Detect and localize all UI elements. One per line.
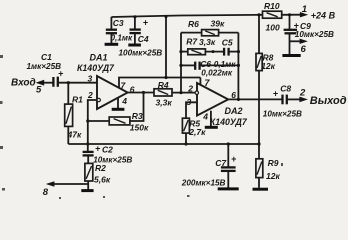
svg-text:3,3к: 3,3к: [156, 97, 173, 107]
wire supply drop to pin7 bus: [165, 17, 167, 78]
wire C3 bottom lead: [110, 33, 112, 43]
svg-text:С4: С4: [138, 34, 149, 44]
resistor R6: [202, 30, 219, 36]
wire C3 top lead: [110, 17, 112, 30]
wire R1 top lead: [67, 83, 69, 104]
svg-text:С5: С5: [222, 37, 233, 47]
svg-text:6: 6: [231, 90, 236, 100]
junction R8 on rail: [257, 13, 260, 16]
resistor R2: [85, 163, 93, 181]
junction R7 C5: [212, 50, 215, 53]
svg-text:10мк×25В: 10мк×25В: [295, 30, 334, 39]
svg-text:+24 В: +24 В: [311, 11, 336, 21]
svg-text:R7: R7: [186, 37, 198, 47]
capacitor C5: [223, 48, 225, 56]
svg-text:100: 100: [266, 22, 280, 32]
wire R8 top lead: [258, 15, 260, 54]
wire C7 bottom lead: [227, 171, 229, 187]
svg-text:R9: R9: [268, 158, 279, 168]
ground DA2 pin4: [205, 126, 218, 129]
svg-text:1мк×25В: 1мк×25В: [27, 62, 62, 71]
wire feedback network left rail: [180, 33, 182, 93]
terminal 8 arrow: [52, 183, 88, 185]
svg-text:2,7к: 2,7к: [188, 127, 206, 137]
wire C7 top lead: [227, 144, 229, 167]
wire DA1 pin4 lead: [117, 98, 119, 108]
inverting input bubble DA2 pin2: [195, 91, 198, 94]
svg-text:39к: 39к: [211, 18, 225, 28]
svg-text:150к: 150к: [130, 123, 149, 133]
svg-text:С3: С3: [113, 18, 124, 28]
wire C6 left lead: [181, 64, 195, 66]
wire pin7 power bus DA1 to DA2: [119, 78, 200, 88]
svg-text:0,1мк: 0,1мк: [111, 34, 133, 43]
svg-text:С7: С7: [215, 158, 227, 168]
svg-text:С8: С8: [280, 84, 291, 94]
terminal 6 arrow: [290, 40, 302, 42]
wire +24V supply rail: [111, 15, 262, 17]
svg-text:+: +: [143, 17, 149, 27]
svg-text:Вход: Вход: [11, 77, 36, 88]
wire R2 bottom lead: [87, 181, 89, 190]
wire R1 bottom to mid rail: [67, 126, 69, 144]
svg-text:2: 2: [87, 90, 93, 100]
svg-text:DA2: DA2: [225, 106, 243, 116]
wire DA2 pin7 drop: [199, 78, 201, 85]
svg-text:12к: 12к: [266, 171, 280, 181]
wire C9 bottom lead: [289, 34, 291, 55]
resistor R7: [188, 49, 206, 55]
junction C5 branch on right rail: [237, 50, 240, 53]
wire C1 to DA1 pin3: [59, 82, 97, 84]
op-amp DA1: [97, 76, 128, 109]
resistor R5: [182, 118, 189, 133]
wire C4 bottom lead: [134, 33, 136, 44]
wire R3 to DA1 output: [130, 93, 144, 122]
inverting input bubble DA1 pin2: [97, 98, 100, 101]
svg-text:6: 6: [301, 44, 307, 55]
resistor R9: [256, 159, 263, 178]
ground under C7: [218, 187, 239, 190]
svg-text:R10: R10: [264, 1, 280, 11]
svg-text:4: 4: [121, 96, 127, 106]
wire DA1 pin2 down to C2: [88, 100, 97, 152]
wire DA2 pin3 to R5: [186, 102, 197, 118]
capacitor C6: [194, 62, 196, 70]
ground under C3: [105, 43, 119, 46]
terminal 5 input arrow: [42, 82, 53, 84]
junction C6 branch on right rail: [237, 64, 240, 67]
wire C4 top lead: [134, 17, 136, 30]
capacitor C9: [284, 29, 297, 31]
svg-text:К140УД7: К140УД7: [210, 117, 248, 127]
junction supply drop on rail: [165, 15, 168, 18]
svg-text:12к: 12к: [261, 61, 275, 71]
wire C9 top lead: [289, 15, 291, 30]
junction pin2 line and mid rail: [86, 142, 89, 145]
svg-text:Выход: Выход: [310, 95, 347, 107]
wire DA2 output: [228, 98, 281, 100]
ground under R9: [253, 188, 269, 191]
svg-text:2: 2: [187, 84, 193, 94]
ground under R2: [81, 189, 93, 192]
svg-text:С2: С2: [102, 145, 113, 155]
junction C7 on mid rail: [227, 142, 230, 145]
junction R9 on mid rail: [257, 142, 260, 145]
svg-text:R3: R3: [132, 111, 143, 121]
resistor R10: [263, 11, 282, 18]
wire R5 bottom lead: [185, 133, 187, 144]
terminal 1 arrow: [300, 12, 308, 17]
ground under C9: [282, 54, 300, 57]
svg-text:3,3к: 3,3к: [199, 37, 216, 47]
op-amp DA2: [197, 83, 228, 116]
wire rail from R10 to terminal 1: [282, 14, 302, 16]
svg-text:3: 3: [187, 97, 192, 107]
capacitor C1: [52, 77, 54, 87]
resistor R3: [109, 117, 130, 125]
wire C6 right lead: [200, 64, 238, 66]
wire DA2 pin4 lead: [210, 111, 212, 126]
svg-text:100мк×25В: 100мк×25В: [119, 49, 163, 58]
svg-text:2: 2: [299, 87, 306, 98]
svg-text:5,6к: 5,6к: [94, 174, 111, 184]
wire midpoint bias rail: [68, 143, 259, 145]
svg-text:R6: R6: [188, 19, 199, 29]
svg-text:5: 5: [36, 84, 42, 95]
junction C6 branch on left rail: [179, 64, 182, 67]
svg-text:К140УД7: К140УД7: [77, 63, 115, 73]
junction C4 on rail: [133, 15, 136, 18]
svg-text:С6: С6: [200, 59, 211, 69]
wire R8 bottom to mid rail: [258, 71, 260, 144]
svg-text:3: 3: [88, 74, 93, 84]
svg-text:1: 1: [302, 4, 307, 15]
wire feedback network right rail: [237, 33, 239, 100]
resistor R8: [256, 53, 262, 70]
junction C9 on rail: [288, 13, 291, 16]
junction pin7 bus and supply drop: [164, 76, 167, 79]
svg-text:DA1: DA1: [90, 52, 108, 62]
junction R7 branch on left rail: [179, 50, 182, 53]
svg-text:С1: С1: [41, 52, 52, 62]
svg-text:8: 8: [43, 187, 49, 198]
svg-text:47к: 47к: [67, 129, 82, 139]
wire DA1 output: [128, 92, 154, 94]
svg-text:200мк×15В: 200мк×15В: [181, 179, 226, 188]
capacitor C7: [221, 166, 236, 168]
resistor R4: [154, 89, 172, 96]
wire C2 to R2: [87, 156, 89, 164]
svg-text:10мк×25В: 10мк×25В: [263, 109, 302, 118]
junction pin2 and R3 branch: [86, 119, 89, 122]
svg-text:4: 4: [202, 112, 208, 122]
wire R7 left lead: [181, 51, 188, 53]
svg-text:+: +: [95, 144, 101, 154]
svg-text:+: +: [231, 154, 237, 164]
wire C5 right lead: [229, 51, 238, 53]
junction input node: [67, 81, 70, 84]
svg-text:R1: R1: [72, 94, 83, 104]
junction R5 on mid rail: [184, 142, 187, 145]
junction right rail on output: [237, 98, 240, 101]
junction feedback rail on pin2 wire: [179, 91, 182, 94]
svg-text:+: +: [294, 20, 300, 30]
capacitor C8: [281, 95, 283, 105]
ground under C4: [128, 44, 141, 47]
wire R6 right lead: [219, 32, 239, 34]
capacitor C3: [106, 29, 117, 31]
svg-text:+: +: [273, 89, 279, 99]
svg-text:R4: R4: [158, 80, 169, 90]
wire R7 to C5: [205, 51, 223, 53]
capacitor C2: [83, 151, 94, 153]
svg-text:6: 6: [130, 84, 135, 94]
svg-text:+: +: [58, 69, 64, 79]
terminal 2 output arrow: [288, 98, 301, 100]
wire R6 left lead: [181, 32, 202, 34]
wire R9 bottom lead: [258, 178, 260, 188]
wire pin2 to R3: [88, 120, 109, 122]
capacitor C4: [130, 28, 141, 30]
svg-text:R2: R2: [95, 163, 106, 173]
wire R4 to DA2 pin2: [172, 92, 195, 94]
svg-text:0,022мк: 0,022мк: [201, 68, 233, 77]
junction DA1 output feedback tap: [142, 91, 145, 94]
ground DA1 pin4: [112, 108, 125, 111]
resistor R1: [65, 104, 73, 126]
wire R9 top lead: [258, 144, 260, 159]
